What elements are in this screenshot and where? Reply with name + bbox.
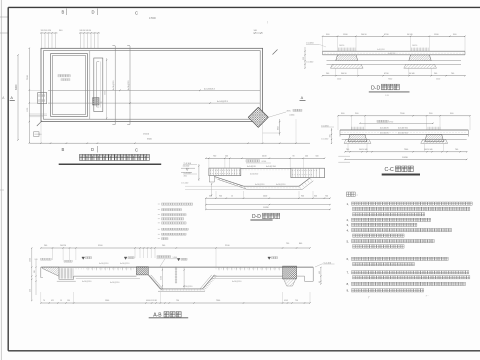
svg-text:4±14@210: 4±14@210 — [120, 263, 129, 265]
svg-text:4,: 4, — [347, 228, 350, 232]
plan title: fire pool foundation slab reinforcement plan — [59, 154, 162, 164]
svg-text:A: A — [10, 96, 13, 100]
svg-text:7340: 7340 — [404, 149, 408, 151]
slab rebar line upper — [48, 90, 260, 92]
section C-C top dimension line — [337, 113, 470, 130]
svg-text:340 90 340: 340 90 340 — [424, 149, 433, 151]
section D-D left level labels — [303, 42, 396, 69]
svg-text:2400: 2400 — [263, 196, 267, 198]
svg-text:200 290: 200 290 — [60, 245, 66, 247]
svg-text:140 90: 140 90 — [412, 45, 417, 47]
svg-text:700: 700 — [213, 155, 216, 157]
section C-C inner dim line with rebar note — [359, 120, 433, 124]
svg-text:4±14@213: 4±14@213 — [204, 88, 216, 90]
svg-text:20%: 20% — [287, 110, 291, 112]
svg-text:10280: 10280 — [263, 207, 269, 209]
section A-B slab tick row right span — [219, 267, 279, 270]
svg-text:450: 450 — [30, 289, 32, 292]
svg-text:120 240 120: 120 240 120 — [41, 30, 52, 32]
section A-B level marks and labels row — [35, 249, 278, 267]
svg-text:4±8@200: 4±8@200 — [377, 49, 385, 51]
plan top-mid dimension cluster — [79, 30, 100, 48]
svg-text:46 44 42 63 68: 46 44 42 63 68 — [146, 300, 157, 302]
svg-text:4±14@20: 4±14@20 — [250, 173, 258, 175]
section A-B left end wall edge — [41, 267, 43, 278]
svg-text:8,: 8, — [347, 282, 350, 286]
svg-text:7100: 7100 — [27, 74, 29, 80]
plan left dim line 8000 — [15, 54, 19, 140]
section C-C slab top line — [340, 129, 468, 131]
svg-text:1220: 1220 — [436, 79, 440, 81]
svg-text:421: 421 — [51, 300, 54, 302]
section A-B slab rebar dots right span — [215, 268, 218, 271]
section D-D slab end caps — [323, 51, 466, 55]
section C-C blinding layer line — [342, 138, 467, 140]
section D-D bottom dimension line — [322, 68, 466, 80]
section D-D mid bottom overall dim — [205, 198, 331, 210]
grid label C top — [135, 11, 138, 16]
pump room inner wall line — [53, 56, 86, 115]
svg-text:800: 800 — [299, 243, 302, 245]
svg-text:15100: 15100 — [143, 134, 150, 136]
section A-B bottom dimension chain — [40, 292, 311, 304]
svg-text:240: 240 — [225, 155, 228, 157]
svg-text:D-D: D-D — [371, 85, 380, 91]
section D-D mid bottom dim row 2 — [205, 204, 331, 205]
svg-text:240: 240 — [434, 73, 437, 75]
svg-text:240 90: 240 90 — [361, 34, 367, 36]
grid label B bottom — [62, 147, 65, 152]
svg-text:90: 90 — [293, 155, 295, 157]
svg-text:700: 700 — [455, 149, 458, 151]
notes trailing marks — [368, 295, 430, 299]
section D-D mid slab top line — [241, 167, 291, 169]
svg-text:190: 190 — [67, 300, 70, 302]
svg-text:4±14@200: 4±14@200 — [128, 81, 130, 90]
section C-C right hatched footing — [425, 134, 444, 141]
section D-D mid pit bottom — [244, 186, 302, 189]
svg-text:B: B — [62, 147, 65, 152]
svg-text:1750: 1750 — [389, 121, 393, 123]
svg-text:D-D: D-D — [252, 214, 261, 220]
section D-D right hatched footing — [409, 55, 431, 61]
grid label B top — [62, 9, 67, 16]
section A-B pit leader note — [157, 256, 179, 267]
svg-text:4±14@213: 4±14@213 — [217, 101, 229, 103]
svg-text:300: 300 — [329, 135, 331, 138]
svg-text:90 340: 90 340 — [409, 73, 415, 75]
ladder / stair strip — [94, 58, 103, 112]
svg-text:4±14@20: 4±14@20 — [247, 166, 257, 168]
section A-B slab top line — [41, 266, 313, 268]
section D-D left wall rebar ticks — [339, 45, 356, 51]
svg-text:▽-0.600: ▽-0.600 — [306, 61, 314, 64]
svg-text:±0.000: ±0.000 — [183, 166, 190, 168]
section D-D left blinding trapezoid — [330, 64, 363, 68]
svg-text:45 45: 45 45 — [284, 300, 288, 302]
svg-text:240 90 240 90: 240 90 240 90 — [80, 30, 92, 32]
svg-text:756: 756 — [295, 300, 298, 302]
pump room label text — [58, 75, 70, 81]
svg-text:7340: 7340 — [388, 79, 392, 81]
svg-text:700: 700 — [325, 196, 328, 198]
section A-B mid hatched wall block — [136, 267, 148, 275]
svg-text:4±14@130: 4±14@130 — [183, 286, 192, 288]
section C-C slab rebar dots — [341, 131, 344, 134]
pump room outer wall — [51, 54, 88, 117]
section D-D mid top dimension line — [205, 155, 325, 167]
svg-text::: : — [357, 192, 358, 197]
section C-C right blinding trapezoid — [421, 139, 448, 143]
svg-text:240: 240 — [326, 73, 329, 75]
svg-text:240: 240 — [162, 245, 165, 247]
section A-B mid pit right slope — [200, 275, 217, 290]
section A-B left hatched slope — [43, 267, 59, 276]
section D-D right blinding trapezoid — [404, 64, 437, 68]
section D-D blinding layer lines — [327, 61, 462, 65]
section C-C left wall rebar ticks — [352, 127, 364, 130]
section D-D slab bottom line — [323, 54, 466, 56]
section D-D right wall rebar ticks — [412, 45, 429, 51]
svg-text:140 90: 140 90 — [339, 45, 344, 47]
plan left dim line 7100 — [27, 48, 47, 144]
section A-B slab rebar dots left span — [75, 268, 78, 271]
svg-text:1940: 1940 — [105, 300, 109, 302]
svg-text:4±14@150: 4±14@150 — [232, 281, 241, 283]
svg-text:(: ( — [267, 20, 268, 24]
section A-B slab bottom line left span — [74, 275, 137, 277]
svg-text:1:340: 1:340 — [173, 257, 178, 259]
leader lines left of C-C bottom — [338, 156, 350, 162]
svg-text:17000: 17000 — [149, 17, 156, 20]
sump pit hatched diamond — [248, 107, 268, 127]
section A-B right vertical dim — [319, 267, 322, 285]
svg-text:740: 740 — [451, 73, 454, 75]
notes header — [347, 192, 358, 197]
section D-D mid right end block — [291, 168, 325, 178]
section D-D title — [369, 84, 410, 97]
section C-C title — [382, 166, 420, 176]
plan long rebar bar 1 with hooks — [112, 46, 115, 125]
svg-text:1,: 1, — [347, 202, 350, 206]
svg-text:C: C — [135, 148, 138, 153]
svg-text:C: C — [135, 11, 138, 16]
section D-D slab rebar dots — [324, 52, 327, 55]
svg-text:2,: 2, — [347, 218, 350, 222]
svg-text:900: 900 — [34, 270, 36, 273]
section cut mark A right — [300, 96, 306, 100]
svg-text:4±14@150: 4±14@150 — [398, 133, 409, 135]
section A-B right block pit below — [284, 279, 296, 286]
section A-B slab tick row left span — [88, 267, 131, 270]
section A-B mid pit left slope — [148, 275, 163, 290]
svg-text:B: B — [62, 10, 65, 15]
svg-text:7360: 7360 — [216, 300, 220, 302]
plan long rebar bar 2 with hooks — [127, 46, 130, 125]
svg-text:1220: 1220 — [337, 79, 341, 81]
svg-text:4±14@150: 4±14@150 — [276, 184, 285, 186]
section A-B rebar callouts below slab — [82, 281, 241, 288]
wall between pump room and pool — [89, 51, 91, 120]
svg-text:-3.100: -3.100 — [261, 161, 266, 163]
svg-text:4±14@150: 4±14@150 — [398, 128, 409, 130]
grid label D bottom — [91, 146, 98, 153]
section A-B left vertical dims — [30, 247, 37, 301]
grid label C bottom — [135, 148, 138, 153]
svg-text:500: 500 — [316, 155, 319, 157]
section A-B mid pit bottom — [158, 289, 205, 291]
svg-text:1900: 1900 — [30, 258, 32, 262]
plan vertical dim near stair strip — [105, 58, 108, 120]
grid label D top — [92, 9, 98, 16]
plan top-left dimension cluster — [40, 30, 63, 48]
svg-text:90 240: 90 240 — [407, 34, 413, 36]
section D-D mid rebar callouts — [247, 166, 285, 186]
svg-text:D: D — [92, 10, 95, 15]
svg-text:4±14@20: 4±14@20 — [380, 128, 390, 130]
svg-text:6,: 6, — [347, 257, 350, 261]
pool outer wall outline — [41, 48, 263, 121]
svg-text:240: 240 — [305, 155, 308, 157]
svg-text:4±14@150: 4±14@150 — [110, 282, 119, 284]
pool inner wall line — [43, 51, 260, 120]
section A-B right end toe — [297, 267, 314, 281]
notes text lines — [347, 202, 473, 293]
section C-C slab edge hooks — [340, 130, 468, 137]
section A-B slab right span lines — [212, 276, 286, 279]
section A-B blinding line left span — [76, 278, 140, 280]
svg-text:790: 790 — [286, 243, 289, 245]
section D-D mid bottom dim row 1 — [205, 191, 331, 199]
svg-text:4±14@150: 4±14@150 — [266, 166, 277, 168]
svg-text:340: 340 — [314, 196, 317, 198]
svg-text:C-C: C-C — [385, 167, 394, 173]
plan bottom small level box — [34, 132, 39, 137]
section A-B top dimension line — [40, 243, 311, 260]
section C-C bottom overall dim — [344, 157, 467, 160]
section A-B right level label — [315, 261, 335, 267]
svg-text:700: 700 — [346, 149, 349, 151]
svg-text:4±14@130: 4±14@130 — [255, 184, 264, 186]
svg-text:940: 940 — [301, 196, 304, 198]
section D-D (top right) top dimension line — [322, 34, 466, 51]
left wall embedded sleeve box — [38, 93, 47, 104]
svg-text:8000: 8000 — [15, 84, 18, 90]
section C-C left hatched footing — [348, 134, 367, 141]
slab rebar callout lower — [217, 101, 229, 103]
level symbol legend detail — [181, 166, 195, 178]
svg-text:10280: 10280 — [402, 157, 409, 159]
svg-text:4±14@200: 4±14@200 — [113, 81, 115, 90]
svg-text:15: 15 — [60, 300, 62, 302]
plan misc mark — [267, 20, 296, 143]
svg-text:▽-5.100: ▽-5.100 — [181, 181, 189, 184]
section cut diagonal tick bottom-left — [37, 121, 42, 126]
svg-text:4±14@150: 4±14@150 — [99, 263, 108, 265]
svg-text:7,: 7, — [347, 271, 350, 275]
svg-text:15: 15 — [231, 196, 233, 198]
section A-B right hatched wall block — [283, 266, 297, 279]
slab rebar callout upper — [204, 88, 216, 90]
svg-text:4±14@20: 4±14@20 — [380, 133, 390, 135]
right vertical dim 550 — [263, 119, 281, 136]
slab rebar line lower — [48, 102, 260, 104]
svg-text:45: 45 — [319, 281, 321, 283]
svg-text:5,: 5, — [347, 239, 350, 243]
section D-D mid left level labels — [181, 162, 246, 190]
svg-text:▽-0.550: ▽-0.550 — [321, 137, 329, 140]
section D-D slab top line — [323, 50, 466, 52]
section C-C bottom dimension line 1 — [344, 144, 467, 153]
svg-text:2100: 2100 — [160, 276, 162, 280]
section cut diagonal tick top-right — [273, 50, 278, 55]
plan top-right dim 340 — [253, 30, 263, 34]
svg-text:240: 240 — [44, 245, 47, 247]
section cut mark A left — [10, 96, 15, 100]
plan bottom dimension line — [30, 122, 310, 144]
section D-D mid left step below block — [209, 176, 214, 196]
section C-C left blinding trapezoid — [344, 139, 371, 143]
svg-text:340 90: 340 90 — [341, 73, 347, 75]
svg-text:4±8@200: 4±8@200 — [388, 53, 395, 55]
section A-B title — [149, 312, 189, 319]
svg-text:9,: 9, — [347, 289, 350, 293]
section C-C rebar callouts — [380, 128, 409, 135]
section D-D left hatched footing — [336, 55, 358, 61]
svg-text:3,: 3, — [347, 223, 350, 227]
svg-text:340 90 340: 340 90 340 — [359, 149, 368, 151]
svg-text:940: 940 — [219, 196, 222, 198]
section A-B pit vertical rebar line — [175, 267, 177, 284]
section D-D mid left end block — [209, 168, 241, 176]
svg-text:A: A — [301, 96, 304, 100]
section C-C slab bottom line — [340, 133, 468, 135]
sump pit leader note — [268, 109, 302, 117]
svg-text:3000: 3000 — [105, 91, 107, 95]
svg-text:340: 340 — [209, 196, 212, 198]
paper edge line — [0, 0, 8, 360]
section D-D mid level note — [246, 160, 271, 163]
plan bottom dim texts — [38, 134, 153, 141]
svg-text:5500: 5500 — [147, 139, 153, 141]
section C-C right wall rebar ticks — [428, 127, 440, 130]
section D-D mid pit right slope — [299, 178, 313, 190]
svg-text:(400): (400) — [290, 114, 295, 116]
section D-D mid pit left slope — [215, 177, 247, 190]
svg-text:550: 550 — [303, 57, 305, 60]
section C-C left level labels — [321, 124, 334, 144]
plan overall dim 17000 — [149, 17, 156, 20]
section A-B pit depth dims — [160, 267, 184, 289]
svg-text:730: 730 — [176, 300, 179, 302]
section D-D mid slab rebar dots — [242, 169, 245, 172]
svg-text:450: 450 — [319, 271, 321, 274]
section A-B pit 1 with stirrup comb — [57, 268, 76, 281]
section D-D mid title — [250, 213, 279, 220]
svg-text:70: 70 — [43, 300, 45, 302]
rebar note list left of mid section — [158, 203, 193, 240]
hatched embedment box in stair strip — [93, 98, 102, 105]
svg-text:D: D — [91, 147, 94, 152]
svg-text:4±14@130: 4±14@130 — [82, 281, 91, 283]
